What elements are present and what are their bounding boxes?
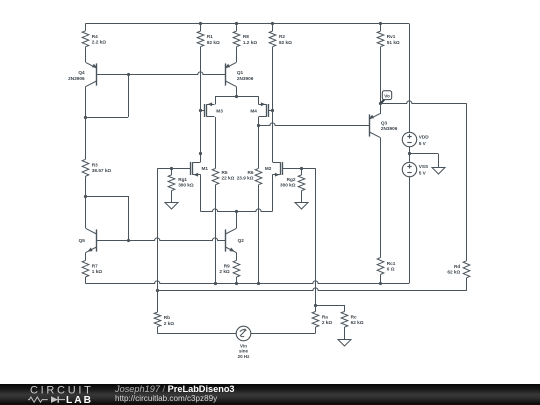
svg-text:R7: R7 [92, 264, 98, 269]
resistor Rv1 top lead [379, 22, 382, 25]
wire M1 gate lead [157, 168, 190, 170]
wire R3 top lead [85, 117, 87, 159]
svg-text:Ra: Ra [322, 315, 328, 320]
svg-text:Rg2: Rg2 [287, 177, 296, 182]
resistor R2 [269, 31, 276, 47]
wire Q5 emitter to R7 [85, 253, 87, 261]
svg-text:R6: R6 [248, 170, 254, 175]
svg-text:LAB: LAB [66, 395, 93, 405]
wire M1-M2 source rail [200, 209, 272, 212]
node R3 bottom junction [84, 195, 87, 198]
transistor Q1 [225, 63, 227, 85]
wire M3 drain down to R5 [215, 117, 217, 168]
footer url text [115, 395, 217, 403]
wire R2 down to M4 gate [272, 47, 274, 111]
node R8 top [235, 22, 238, 25]
svg-text:VDD: VDD [419, 134, 430, 139]
svg-text:Q2: Q2 [238, 238, 245, 243]
svg-text:2.2 kΩ: 2.2 kΩ [92, 40, 106, 45]
wire M4 gate node to M2 drain [272, 111, 274, 162]
ground supply midpoint [432, 168, 445, 175]
wire Rd down to feedback rail [466, 278, 468, 291]
node M1 drain junction [199, 152, 202, 155]
resistor R2 top lead [272, 24, 274, 31]
wire R5 to rail [215, 185, 217, 284]
svg-text:0 Ω: 0 Ω [387, 266, 395, 271]
resistor R1 top lead [200, 24, 202, 31]
svg-text:Rc: Rc [351, 315, 357, 320]
svg-text:51 kΩ: 51 kΩ [387, 40, 400, 45]
svg-text:82 kΩ: 82 kΩ [279, 40, 292, 45]
resistor Rd [463, 261, 470, 278]
wire Q5 collector lead [85, 196, 87, 228]
wire base line Q5 to Q2 [96, 238, 226, 241]
svg-text:Q3: Q3 [381, 120, 388, 125]
footer title text [115, 385, 235, 394]
wire M1 drain lead [200, 154, 202, 162]
wire Vo to right branch [380, 101, 467, 104]
resistor Rb [154, 312, 161, 327]
node Vo [379, 102, 382, 105]
node feedback-input junction [156, 289, 159, 292]
svg-text:M2: M2 [265, 166, 272, 171]
svg-text:M4: M4 [250, 109, 257, 114]
mosfet M1 [190, 162, 192, 175]
svg-text:R4: R4 [92, 34, 98, 39]
wire Q1 collector down [236, 87, 238, 97]
voltage source VSS [402, 162, 416, 176]
wire M2 gate column down [315, 168, 317, 305]
wire R4 to Q4 emitter [85, 47, 87, 63]
source Vin sine [236, 326, 251, 341]
svg-text:5 V: 5 V [419, 141, 427, 146]
node Q2 collector junction [235, 210, 238, 213]
wire M3-M4 source rail [215, 96, 259, 98]
svg-text:2 kΩ: 2 kΩ [164, 321, 175, 326]
svg-text:300 kΩ: 300 kΩ [178, 183, 194, 188]
wire R1 down to M3 gate [200, 47, 202, 111]
svg-text:5 V: 5 V [419, 171, 427, 176]
svg-text:M1: M1 [202, 166, 209, 171]
ground below Rg2 [295, 203, 308, 210]
svg-text:Rd: Rd [454, 264, 460, 269]
wire Rv1 down to Vo node [380, 47, 382, 104]
svg-text:R2: R2 [279, 34, 285, 39]
resistor R6 [255, 168, 262, 184]
wire R6 to rail [258, 185, 260, 284]
wire Q2 collector lead [236, 211, 238, 228]
wire base line Q4 to Q1 [96, 72, 226, 75]
node Ra-Rc junction [314, 304, 317, 307]
wire R9 to rail [236, 277, 238, 283]
svg-text:Vo: Vo [384, 93, 390, 98]
svg-text:2 kΩ: 2 kΩ [322, 320, 333, 325]
ground below Rc [338, 340, 351, 347]
mosfet M2 [282, 162, 284, 175]
wire VDD to mid node [409, 147, 411, 162]
ground below Rg1 [165, 203, 178, 210]
resistor Rc [341, 312, 348, 328]
node R6 rail junction [257, 282, 260, 285]
wire M4 drain to Q3 base [259, 123, 370, 126]
svg-text:82 kΩ: 82 kΩ [207, 40, 220, 45]
mosfet M4 [268, 104, 270, 117]
voltage source VDD [402, 132, 416, 146]
svg-text:R5: R5 [222, 170, 228, 175]
node Rg2 top junction [300, 167, 303, 170]
wire Rc to ground [344, 327, 346, 340]
wire Rg2 to ground [301, 191, 303, 203]
svg-text:62 kΩ: 62 kΩ [447, 270, 460, 275]
wire feedback rail [157, 288, 467, 291]
resistor R8 [233, 31, 240, 47]
wire node to Rb [157, 291, 159, 312]
transistor Q5 [96, 229, 98, 251]
resistor Rv1 [377, 31, 384, 47]
wire Q3 collector down to Rc1 [380, 138, 382, 258]
svg-text:R9: R9 [224, 264, 230, 269]
svg-text:VSS: VSS [419, 164, 428, 169]
resistor R9 [233, 260, 240, 277]
wire M3 gate lead [200, 110, 204, 112]
resistor R5 [212, 168, 219, 184]
wire Ra top to node [315, 305, 317, 312]
node R5 rail junction [214, 282, 217, 285]
svg-text:R3: R3 [92, 163, 98, 168]
wire bottom left to Vin [157, 333, 236, 335]
wire M4 source lead [258, 96, 260, 104]
svg-text:62 kΩ: 62 kΩ [351, 320, 364, 325]
wire M4 drain to R6 [258, 125, 260, 168]
wire right branch down to Rd [466, 104, 468, 261]
resistor R7 [82, 260, 89, 277]
CircuitLab logo [0, 384, 110, 405]
svg-text:M3: M3 [216, 109, 223, 114]
wire M3 source lead [215, 96, 217, 104]
wire M4 drain down [258, 117, 260, 125]
svg-text:1.2 kΩ: 1.2 kΩ [243, 40, 257, 45]
resistor R4 [82, 31, 89, 47]
wire Rb to bottom [157, 327, 159, 334]
svg-text:38.57 kΩ: 38.57 kΩ [92, 168, 112, 173]
svg-text:Q4: Q4 [78, 70, 85, 75]
resistor Ra [312, 312, 319, 328]
wire R8 to Q1 emitter [236, 47, 238, 63]
node R1 top [199, 22, 202, 25]
svg-text:2N3906: 2N3906 [381, 126, 398, 131]
flag Vo [382, 91, 391, 100]
wire M1 source down [200, 174, 202, 211]
wire input column [157, 168, 159, 291]
node M3 gate junction [199, 109, 202, 112]
wire Q2 emitter to R9 [236, 253, 238, 261]
svg-text:2N3906: 2N3906 [68, 76, 85, 81]
wire left column (R4 top lead) [85, 24, 87, 31]
wire top supply rail [85, 23, 409, 25]
wire M3 gate node to M1 drain [200, 111, 202, 154]
resistor Rg2 [301, 168, 303, 175]
node R9 rail junction [235, 282, 238, 285]
svg-text:2N3906: 2N3906 [237, 76, 254, 81]
transistor Q3 [369, 114, 371, 136]
resistor R1 [197, 31, 204, 47]
wire Rc1 to rail [380, 274, 382, 283]
resistor Rg1 [171, 168, 173, 175]
wire M2 gate lead [283, 168, 316, 170]
wire R3 to node [85, 176, 87, 196]
svg-text:Q1: Q1 [237, 70, 244, 75]
node Q4 collector junction [84, 116, 87, 119]
svg-text:1 kΩ: 1 kΩ [92, 269, 103, 274]
svg-text:Rc1: Rc1 [387, 261, 396, 266]
wire Rg1 to ground [171, 191, 173, 203]
node R2 top [271, 22, 274, 25]
node Q4 base junction [127, 73, 130, 76]
node Q1 collector junction [235, 95, 238, 98]
svg-text:Rv1: Rv1 [387, 34, 396, 39]
svg-text:Rg1: Rg1 [178, 177, 187, 182]
node Rc1 rail junction [379, 282, 382, 285]
wire R7 to rail [85, 277, 87, 283]
wire M2 source down [272, 174, 274, 211]
svg-text:Q5: Q5 [79, 238, 86, 243]
mosfet M3 [204, 104, 206, 117]
wire top rail down right side [409, 24, 411, 132]
svg-text:R1: R1 [207, 34, 213, 39]
resistor R3 [82, 159, 89, 176]
node Rg1 top junction [170, 167, 173, 170]
node supply midpoint [408, 152, 411, 155]
wire Q3 emitter lead [380, 104, 382, 114]
svg-text:20 Hz: 20 Hz [238, 354, 251, 359]
node M4 gate junction [271, 109, 274, 112]
svg-text:22 kΩ: 22 kΩ [222, 176, 235, 181]
resistor Rc1 [377, 258, 384, 275]
wire bottom VEE rail [85, 281, 409, 284]
svg-text:23.9 kΩ: 23.9 kΩ [237, 176, 254, 181]
svg-text:R8: R8 [243, 34, 249, 39]
resistor R8 top lead [236, 24, 238, 31]
transistor Q4 [96, 63, 98, 85]
wire VSS down to rail [409, 176, 411, 283]
wire node to Rc [315, 305, 344, 307]
wire Q4 base-collector tie [85, 117, 128, 119]
wire Q4 collector down [85, 87, 87, 118]
node M4 drain junction [257, 124, 260, 127]
wire Vin to Ra [251, 333, 316, 335]
svg-text:300 kΩ: 300 kΩ [280, 183, 296, 188]
wire mid node to ground [409, 153, 438, 155]
node Q5 base junction [127, 239, 130, 242]
wire Q5 base tie [85, 196, 128, 198]
svg-text:2 kΩ: 2 kΩ [219, 269, 230, 274]
wire M4 gate lead [268, 110, 272, 112]
svg-text:Rb: Rb [164, 315, 170, 320]
transistor Q2 [225, 229, 227, 251]
